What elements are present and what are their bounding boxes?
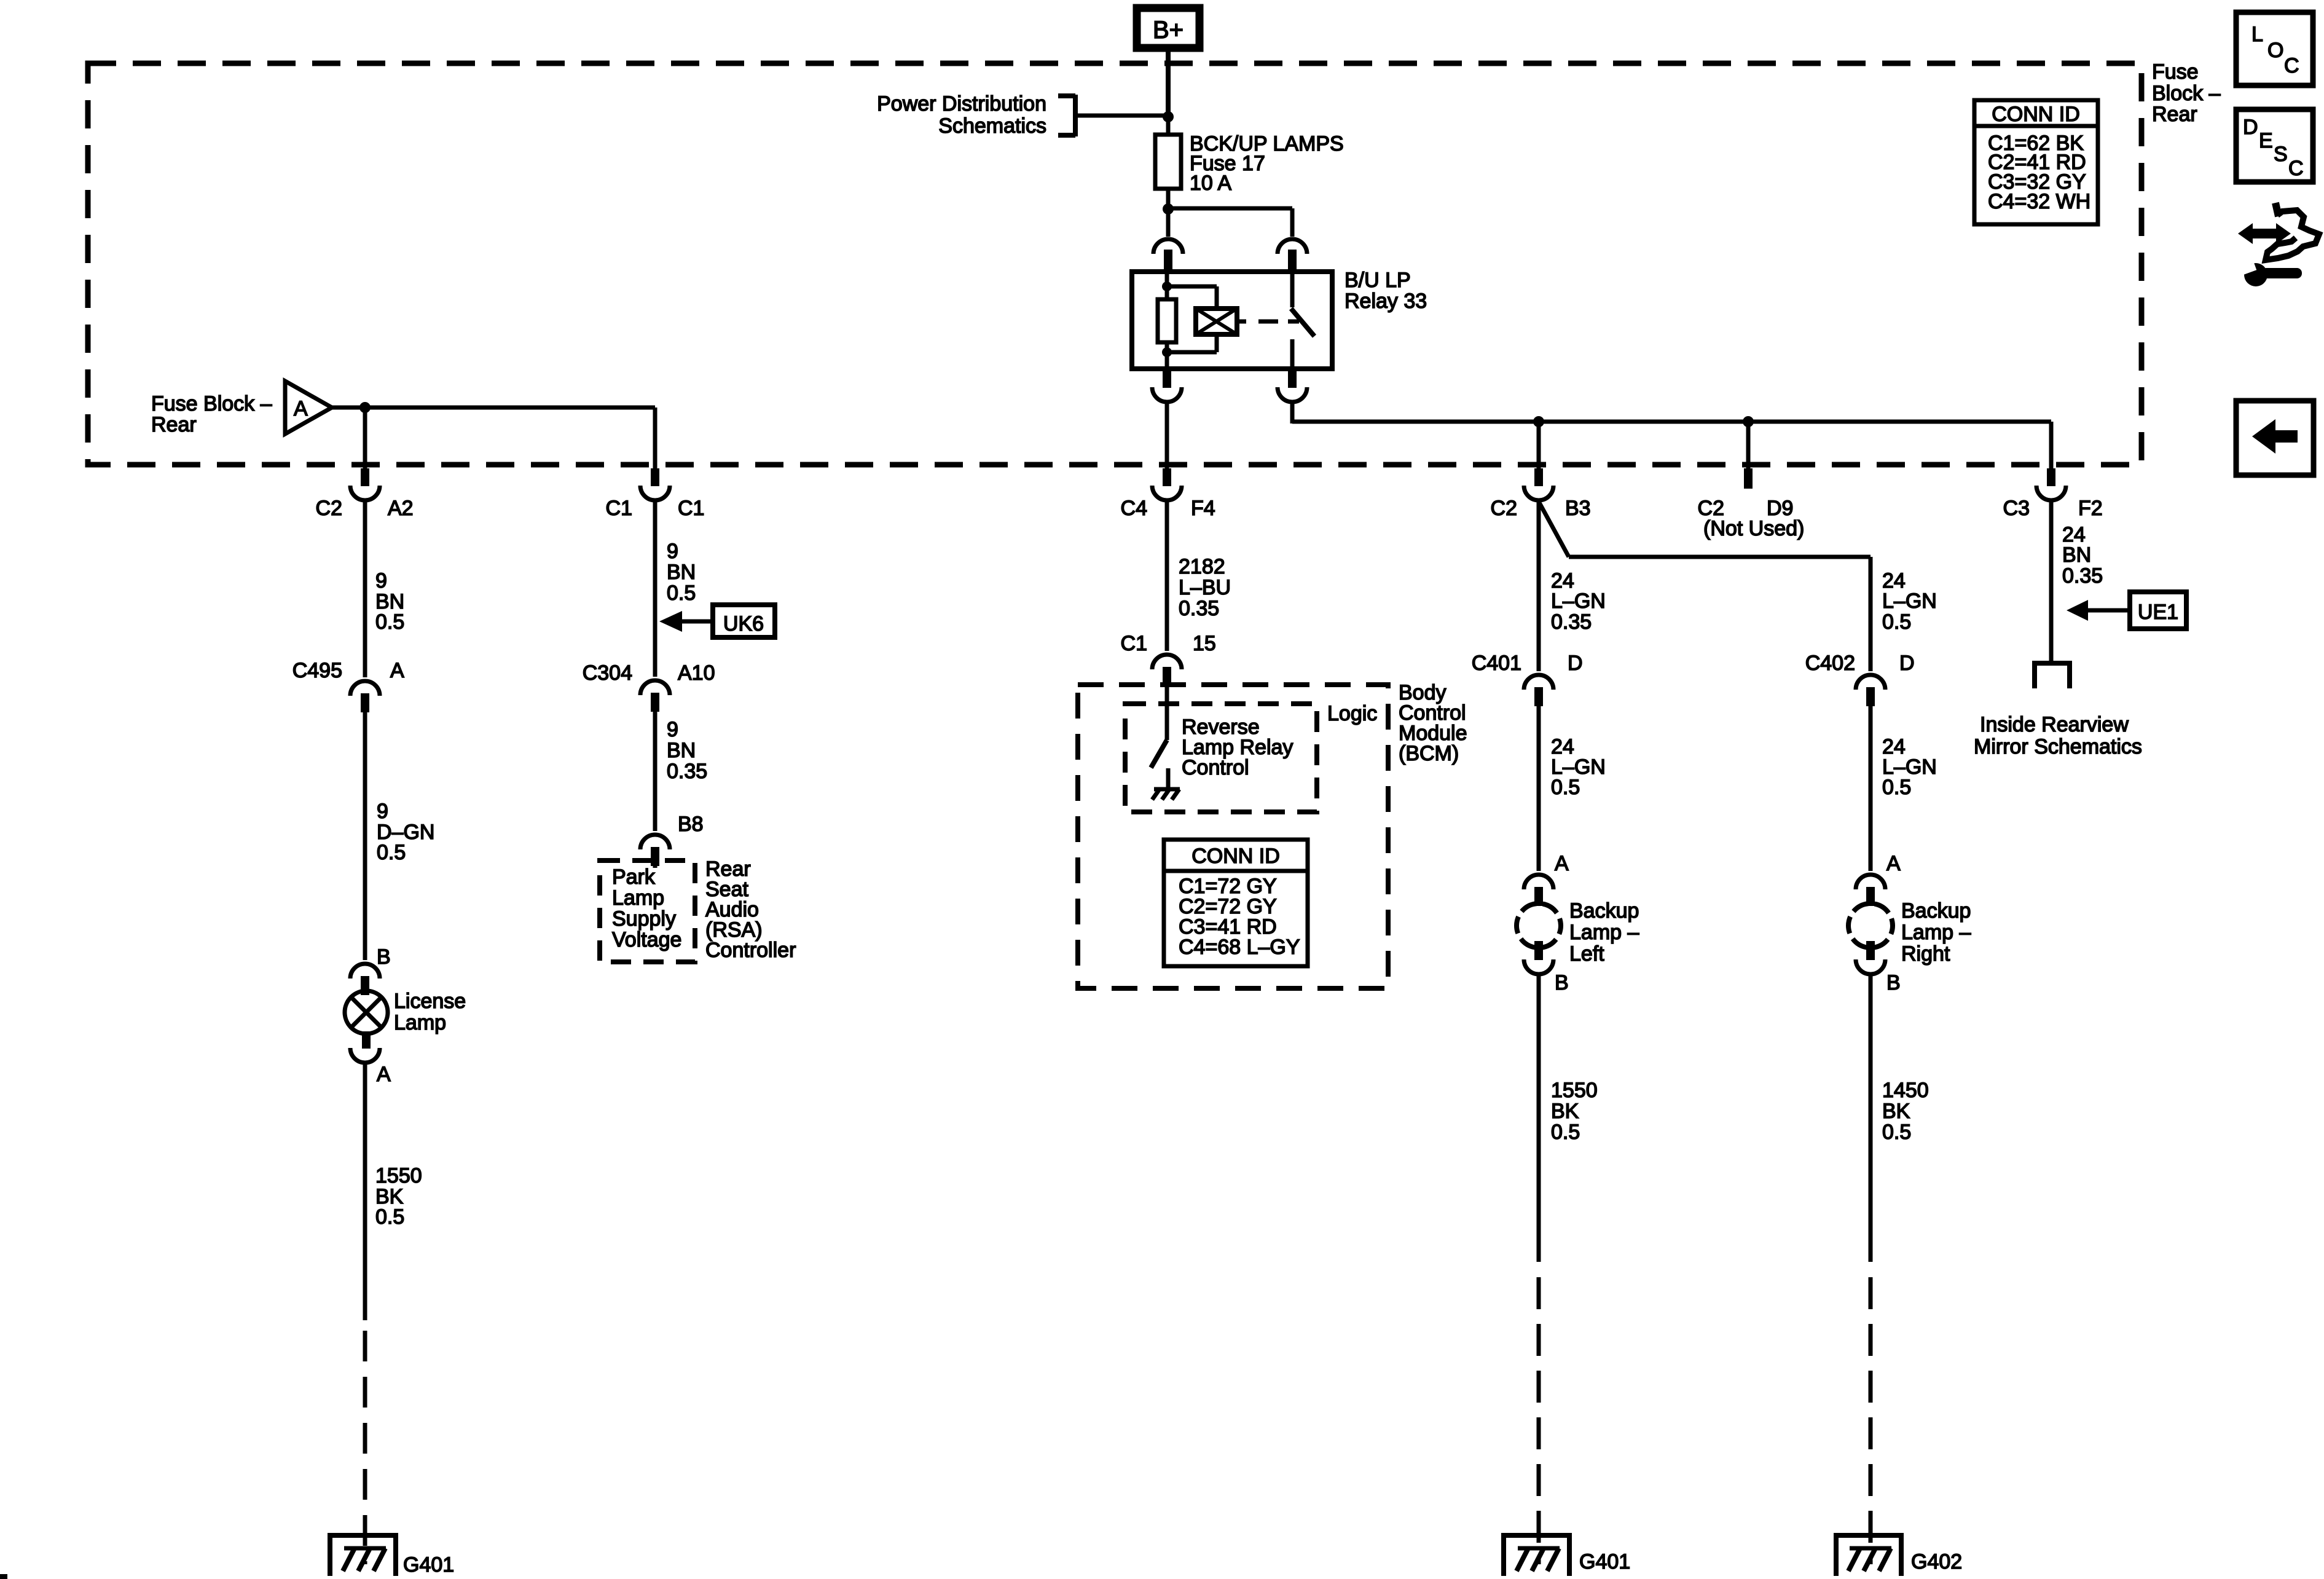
- svg-text:BN: BN: [667, 739, 696, 762]
- svg-text:C495: C495: [292, 659, 342, 682]
- svg-text:2182: 2182: [1179, 555, 1225, 578]
- svg-text:0.35: 0.35: [1551, 610, 1592, 634]
- svg-text:Lamp: Lamp: [394, 1011, 446, 1034]
- svg-text:CONN ID: CONN ID: [1191, 845, 1280, 868]
- svg-text:Lamp: Lamp: [612, 886, 664, 910]
- svg-text:9: 9: [377, 800, 388, 823]
- svg-text:Controller: Controller: [705, 939, 796, 962]
- svg-text:Mirror Schematics: Mirror Schematics: [1974, 735, 2142, 758]
- svg-text:C2: C2: [1491, 497, 1517, 520]
- svg-text:0.5: 0.5: [667, 581, 696, 605]
- svg-text:0.5: 0.5: [375, 610, 404, 634]
- svg-text:C: C: [2284, 54, 2299, 77]
- svg-text:9: 9: [375, 569, 387, 593]
- svg-text:D: D: [2243, 116, 2258, 139]
- svg-text:0.5: 0.5: [375, 1205, 404, 1229]
- svg-text:A2: A2: [388, 497, 414, 520]
- svg-text:S: S: [2274, 143, 2288, 166]
- svg-text:B: B: [1886, 971, 1901, 994]
- svg-text:C402: C402: [1805, 652, 1855, 675]
- svg-text:Logic: Logic: [1327, 702, 1377, 725]
- svg-text:1450: 1450: [1882, 1079, 1929, 1102]
- svg-text:CONN ID: CONN ID: [1992, 103, 2080, 126]
- svg-text:Schematics: Schematics: [938, 114, 1046, 138]
- svg-text:L–GN: L–GN: [1882, 589, 1937, 613]
- svg-text:G401: G401: [403, 1553, 454, 1577]
- svg-text:G401: G401: [1579, 1550, 1630, 1573]
- svg-text:B: B: [377, 945, 391, 969]
- svg-text:9: 9: [667, 718, 678, 741]
- svg-text:Backup: Backup: [1901, 899, 1971, 923]
- svg-text:C304: C304: [583, 661, 632, 685]
- svg-text:0.5: 0.5: [1882, 1120, 1911, 1144]
- svg-text:BN: BN: [2062, 543, 2091, 567]
- svg-text:L–BU: L–BU: [1179, 576, 1231, 599]
- svg-text:Block –: Block –: [2152, 82, 2221, 105]
- svg-text:BK: BK: [1882, 1100, 1910, 1123]
- svg-text:Backup: Backup: [1569, 899, 1639, 923]
- svg-text:D: D: [1899, 652, 1915, 675]
- svg-text:0.35: 0.35: [2062, 564, 2103, 588]
- svg-text:D: D: [1568, 652, 1583, 675]
- svg-text:B: B: [1555, 971, 1569, 994]
- svg-text:15: 15: [1193, 632, 1216, 655]
- svg-text:0.5: 0.5: [1882, 610, 1911, 634]
- svg-text:C1: C1: [678, 497, 704, 520]
- svg-text:C3: C3: [2003, 497, 2030, 520]
- svg-text:Lamp –: Lamp –: [1569, 921, 1639, 944]
- svg-text:UE1: UE1: [2138, 600, 2178, 624]
- svg-text:A: A: [390, 659, 404, 682]
- svg-text:Inside Rearview: Inside Rearview: [1980, 713, 2129, 736]
- svg-text:B3: B3: [1565, 497, 1591, 520]
- svg-text:BK: BK: [1551, 1100, 1579, 1123]
- svg-text:G402: G402: [1911, 1550, 1962, 1573]
- svg-text:(Not Used): (Not Used): [1703, 517, 1804, 540]
- svg-text:C4: C4: [1121, 497, 1147, 520]
- svg-text:O: O: [2267, 39, 2283, 62]
- svg-text:Left: Left: [1569, 942, 1604, 966]
- svg-text:Control: Control: [1182, 756, 1249, 779]
- svg-text:F2: F2: [2078, 497, 2103, 520]
- svg-text:Lamp –: Lamp –: [1901, 921, 1971, 944]
- svg-text:L: L: [2251, 23, 2263, 46]
- svg-text:C1: C1: [606, 497, 632, 520]
- svg-text:Supply: Supply: [612, 907, 676, 931]
- svg-text:A10: A10: [678, 661, 715, 685]
- svg-text:BN: BN: [667, 561, 696, 584]
- svg-text:B8: B8: [678, 813, 704, 836]
- svg-text:A: A: [377, 1063, 391, 1086]
- svg-text:Rear: Rear: [151, 413, 197, 436]
- svg-text:C4=32 WH: C4=32 WH: [1988, 190, 2090, 213]
- svg-text:E: E: [2259, 129, 2273, 152]
- svg-text:B+: B+: [1153, 17, 1184, 44]
- svg-text:A: A: [294, 397, 308, 420]
- svg-text:C401: C401: [1472, 652, 1521, 675]
- svg-text:Voltage: Voltage: [612, 928, 681, 951]
- svg-text:A: A: [1555, 852, 1569, 875]
- svg-text:0.5: 0.5: [1551, 1120, 1580, 1144]
- svg-text:F4: F4: [1191, 497, 1215, 520]
- svg-text:Fuse: Fuse: [2152, 60, 2199, 84]
- svg-text:C2: C2: [316, 497, 342, 520]
- svg-text:Fuse Block –: Fuse Block –: [151, 392, 272, 415]
- svg-text:0.35: 0.35: [667, 760, 707, 783]
- svg-text:A: A: [1886, 852, 1901, 875]
- svg-text:Relay 33: Relay 33: [1345, 289, 1427, 313]
- svg-text:9: 9: [667, 540, 678, 563]
- svg-text:UK6: UK6: [723, 612, 764, 636]
- svg-text:(BCM): (BCM): [1399, 742, 1459, 765]
- svg-text:B/U LP: B/U LP: [1345, 269, 1411, 292]
- svg-text:C1: C1: [1121, 632, 1147, 655]
- svg-text:Rear: Rear: [2152, 103, 2197, 126]
- svg-text:Right: Right: [1901, 942, 1950, 966]
- svg-text:1550: 1550: [375, 1164, 422, 1187]
- svg-text:Power Distribution: Power Distribution: [877, 92, 1046, 116]
- svg-text:C4=68 L–GY: C4=68 L–GY: [1179, 935, 1300, 959]
- svg-text:0.5: 0.5: [1551, 776, 1580, 799]
- svg-text:10 A: 10 A: [1190, 171, 1231, 195]
- svg-text:License: License: [394, 990, 466, 1013]
- svg-text:C: C: [2288, 157, 2304, 180]
- svg-text:1550: 1550: [1551, 1079, 1598, 1102]
- svg-text:0.5: 0.5: [377, 841, 406, 864]
- svg-text:0.5: 0.5: [1882, 776, 1911, 799]
- svg-text:L–GN: L–GN: [1551, 589, 1606, 613]
- svg-text:Park: Park: [612, 865, 656, 889]
- svg-text:0.35: 0.35: [1179, 597, 1219, 620]
